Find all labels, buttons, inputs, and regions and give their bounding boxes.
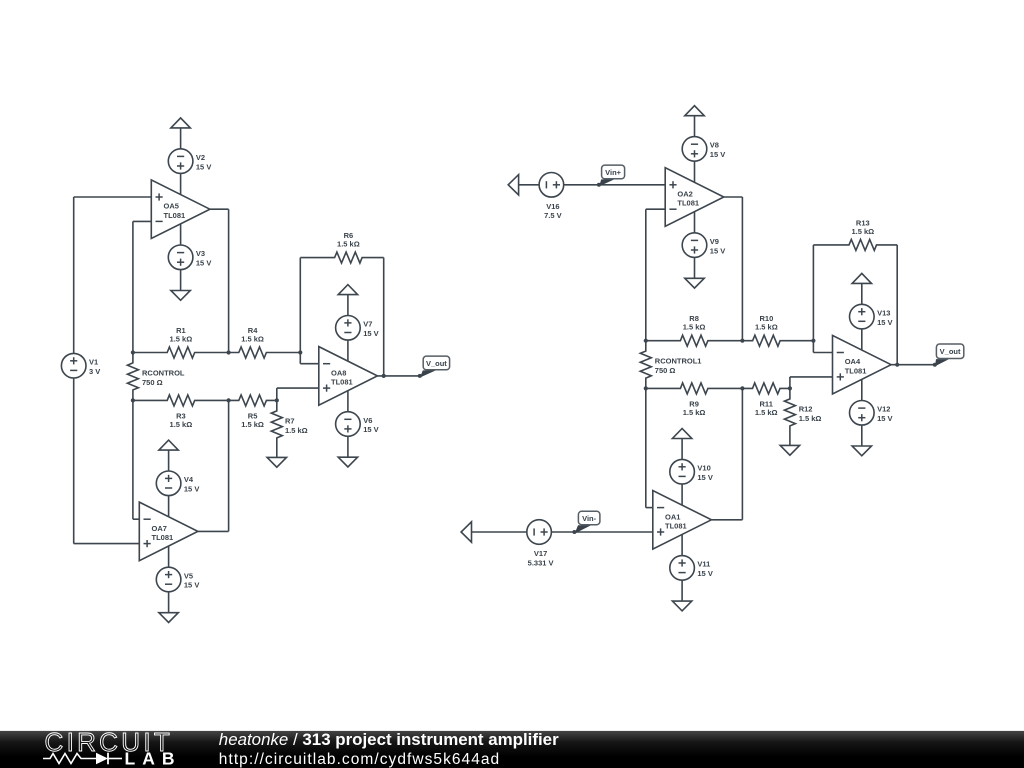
svg-text:1.5 kΩ: 1.5 kΩ xyxy=(241,420,264,429)
resistor RCONTROL1 xyxy=(640,341,701,389)
net flag Vin+ xyxy=(597,165,625,187)
svg-text:7.5 V: 7.5 V xyxy=(544,211,562,220)
svg-text:http://circuitlab.com/cydfws5k: http://circuitlab.com/cydfws5k644ad xyxy=(219,751,500,768)
op-amp OA1 xyxy=(653,491,712,550)
svg-text:OA7: OA7 xyxy=(152,524,167,533)
power V- arrow below V5 xyxy=(159,613,178,623)
voltage source V3 xyxy=(168,245,211,270)
node R9 left junction xyxy=(644,386,648,390)
svg-text:15 V: 15 V xyxy=(363,329,378,338)
svg-text:15 V: 15 V xyxy=(877,414,892,423)
wire OA8 V- pin to V6 xyxy=(347,391,349,413)
svg-text:LAB: LAB xyxy=(125,749,182,768)
wire OA5 output down to R1/R4 node xyxy=(210,209,229,352)
svg-text:V_out: V_out xyxy=(426,359,447,368)
wire xyxy=(681,580,683,601)
svg-text:R12: R12 xyxy=(799,404,813,413)
voltage source V12 xyxy=(850,401,893,426)
power V- arrow below V9 xyxy=(685,278,704,288)
wire OA4 output to V_out xyxy=(891,364,935,366)
voltage source V6 xyxy=(336,412,379,437)
resistor R3 xyxy=(133,395,229,429)
CircuitLab logo resistor-diode squiggle xyxy=(43,753,122,765)
wire OA2 V- pin to V9 xyxy=(694,212,696,233)
wire OA4 V- pin to V12 xyxy=(861,379,863,401)
resistor R9 xyxy=(646,383,743,417)
svg-text:V7: V7 xyxy=(363,320,372,329)
resistor R12 xyxy=(784,388,821,445)
resistor R7 xyxy=(271,400,307,457)
svg-text:V2: V2 xyxy=(196,153,205,162)
op-amp OA8 xyxy=(319,347,378,406)
svg-text:1.5 kΩ: 1.5 kΩ xyxy=(683,323,706,332)
voltage source V2 xyxy=(168,149,211,174)
svg-text:15 V: 15 V xyxy=(196,259,211,268)
net flag V_out (left) xyxy=(418,356,450,378)
node R10 right junction xyxy=(811,339,815,343)
wire OA5 inverting input to left rail xyxy=(133,221,151,352)
svg-text:OA2: OA2 xyxy=(677,190,692,199)
node R3 left junction xyxy=(131,398,135,402)
svg-text:V5: V5 xyxy=(184,571,193,580)
power V- arrow below V11 xyxy=(672,601,691,611)
resistor R11 xyxy=(742,383,790,417)
svg-text:TL081: TL081 xyxy=(152,533,174,542)
svg-text:OA5: OA5 xyxy=(164,202,179,211)
wire R5/R7 node up to OA8 noninverting input xyxy=(277,388,319,400)
svg-text:1.5 kΩ: 1.5 kΩ xyxy=(755,408,778,417)
wire xyxy=(347,295,349,316)
svg-text:OA8: OA8 xyxy=(331,368,346,377)
svg-text:1.5 kΩ: 1.5 kΩ xyxy=(799,414,822,423)
wire xyxy=(681,439,683,460)
wire xyxy=(347,436,349,457)
svg-text:15 V: 15 V xyxy=(196,162,211,171)
op-amp OA2 xyxy=(665,168,724,227)
wire OA5 V- pin to V3 xyxy=(180,224,182,246)
voltage source V17 xyxy=(527,520,554,568)
op-amp OA5 xyxy=(151,180,210,239)
power V+ arrow above V4 xyxy=(159,440,178,450)
wire V7 to OA8 V+ pin xyxy=(347,340,349,361)
wire OA1 inverting input to right rail xyxy=(646,388,653,507)
svg-text:V3: V3 xyxy=(196,249,205,258)
wire V1+ to OA5 noninverting input xyxy=(74,197,152,354)
svg-text:1.5 kΩ: 1.5 kΩ xyxy=(755,323,778,332)
node R8 left junction xyxy=(644,339,648,343)
wire V2 to OA5 V+ pin xyxy=(180,173,182,194)
svg-text:V13: V13 xyxy=(877,308,890,317)
svg-text:15 V: 15 V xyxy=(363,425,378,434)
power V+ arrow above V10 xyxy=(672,429,691,439)
svg-text:V16: V16 xyxy=(546,202,559,211)
net flag V_out (right) xyxy=(933,344,964,367)
input port arrow for V16 xyxy=(508,175,518,195)
voltage source V8 xyxy=(682,137,725,162)
svg-text:750 Ω: 750 Ω xyxy=(655,366,676,375)
voltage source V5 xyxy=(156,567,199,592)
CircuitLab logo LAB xyxy=(125,749,182,768)
voltage source V10 xyxy=(670,459,713,484)
footer title text xyxy=(219,730,559,749)
wire V10 to OA1 V+ pin xyxy=(681,484,683,505)
wire V8 to OA2 V+ pin xyxy=(694,161,696,182)
svg-text:1.5 kΩ: 1.5 kΩ xyxy=(170,420,193,429)
node R11/R12 junction xyxy=(788,386,792,390)
resistor R13 xyxy=(813,218,897,250)
voltage source V16 xyxy=(539,173,564,221)
power V- arrow below V3 xyxy=(171,291,190,301)
svg-text:V6: V6 xyxy=(363,416,372,425)
svg-text:RCONTROL: RCONTROL xyxy=(142,368,185,377)
power V- arrow below V6 xyxy=(338,457,357,467)
voltage source V7 xyxy=(336,316,379,341)
resistor R8 xyxy=(646,314,743,346)
resistor R6 xyxy=(300,231,383,263)
wire OA1 output up to R9/R11 node xyxy=(711,388,742,519)
resistor R5 xyxy=(229,395,277,429)
node R9/R11 junction xyxy=(740,386,744,390)
resistor RCONTROL xyxy=(127,353,185,401)
wire xyxy=(180,269,182,290)
svg-text:V17: V17 xyxy=(534,549,547,558)
wire OA2 inverting input to right rail xyxy=(646,209,665,341)
wire OA7 output up to R3/R5 node xyxy=(198,400,229,531)
wire V17 to OA1 noninverting input xyxy=(551,531,653,533)
resistor R4 xyxy=(229,326,301,358)
power V+ arrow above V8 xyxy=(685,106,704,116)
wire xyxy=(861,425,863,446)
svg-text:OA1: OA1 xyxy=(665,512,680,521)
node R5/R7 junction xyxy=(275,398,279,402)
wire xyxy=(519,184,540,186)
svg-text:15 V: 15 V xyxy=(877,318,892,327)
svg-text:TL081: TL081 xyxy=(665,521,687,530)
svg-text:V_out: V_out xyxy=(940,347,961,356)
node R3/R5 junction xyxy=(227,398,231,402)
svg-text:3 V: 3 V xyxy=(89,367,100,376)
wire OA7 V- pin to V5 xyxy=(168,546,170,568)
svg-text:15 V: 15 V xyxy=(184,581,199,590)
node R1/R4 junction xyxy=(227,350,231,354)
svg-text:RCONTROL1: RCONTROL1 xyxy=(655,356,702,365)
wire xyxy=(168,592,170,613)
resistor R1 xyxy=(133,326,229,358)
wire V16 to OA2 noninverting input xyxy=(563,184,665,186)
ground below R12 xyxy=(780,445,799,455)
svg-text:1.5 kΩ: 1.5 kΩ xyxy=(851,227,874,236)
svg-text:15 V: 15 V xyxy=(697,569,712,578)
wire xyxy=(694,116,696,137)
wire xyxy=(472,531,528,533)
node OA4 output junction xyxy=(895,363,899,367)
ground below R7 xyxy=(267,457,286,467)
wire xyxy=(694,257,696,278)
svg-text:V10: V10 xyxy=(697,464,710,473)
power V+ arrow above V7 xyxy=(338,285,357,295)
wire R11/R12 node up to OA4 noninverting input xyxy=(790,377,833,389)
net flag Vin- xyxy=(572,511,600,534)
svg-text:TL081: TL081 xyxy=(331,378,353,387)
wire R13 right down to OA4 output node xyxy=(896,245,898,365)
wire OA8 output to V_out xyxy=(377,375,420,377)
svg-text:1.5 kΩ: 1.5 kΩ xyxy=(337,240,360,249)
voltage source V9 xyxy=(682,233,725,258)
svg-text:750 Ω: 750 Ω xyxy=(142,378,163,387)
wire V4 to OA7 V+ pin xyxy=(168,495,170,517)
svg-text:1.5 kΩ: 1.5 kΩ xyxy=(285,426,308,435)
svg-text:15 V: 15 V xyxy=(697,473,712,482)
svg-text:V9: V9 xyxy=(710,237,719,246)
svg-text:V8: V8 xyxy=(710,141,719,150)
wire OA7 inverting input to left rail xyxy=(133,400,139,519)
wire V13 to OA4 V+ pin xyxy=(861,329,863,351)
svg-text:15 V: 15 V xyxy=(184,485,199,494)
power V+ arrow above V2 xyxy=(171,118,190,128)
svg-text:V12: V12 xyxy=(877,405,890,414)
svg-text:V4: V4 xyxy=(184,475,194,484)
wire OA2 output down to R8/R10 node xyxy=(724,197,743,341)
node R4 right junction xyxy=(298,350,302,354)
svg-text:TL081: TL081 xyxy=(677,199,699,208)
footer url text xyxy=(219,751,500,768)
svg-text:Vin+: Vin+ xyxy=(605,168,622,177)
svg-text:1.5 kΩ: 1.5 kΩ xyxy=(683,408,706,417)
node OA8 output junction xyxy=(382,374,386,378)
wire xyxy=(168,450,170,471)
svg-text:15 V: 15 V xyxy=(710,150,725,159)
input port arrow for V17 xyxy=(461,522,471,542)
wire R4 node up to R6 and down to OA8 inverting input xyxy=(300,258,319,364)
voltage source V1 xyxy=(61,353,100,378)
svg-text:R7: R7 xyxy=(285,416,295,425)
voltage source V11 xyxy=(670,556,713,581)
op-amp OA7 xyxy=(139,502,198,561)
svg-text:TL081: TL081 xyxy=(845,366,867,375)
node R8/R10 junction xyxy=(740,339,744,343)
svg-text:V11: V11 xyxy=(697,560,710,569)
svg-text:V1: V1 xyxy=(89,358,98,367)
svg-text:1.5 kΩ: 1.5 kΩ xyxy=(241,335,264,344)
CircuitLab logo wordmark CIRCUIT xyxy=(45,727,174,757)
power V- arrow below V12 xyxy=(852,446,871,456)
svg-text:Vin-: Vin- xyxy=(582,514,597,523)
svg-text:TL081: TL081 xyxy=(164,211,186,220)
voltage source V13 xyxy=(850,304,893,329)
svg-text:15 V: 15 V xyxy=(710,246,725,255)
wire R6 right down to OA8 output node xyxy=(383,258,385,376)
footer banner xyxy=(0,731,1024,768)
svg-text:heatonke / 313 project instrum: heatonke / 313 project instrument amplif… xyxy=(219,730,559,749)
op-amp OA4 xyxy=(833,335,892,394)
svg-text:OA4: OA4 xyxy=(845,357,861,366)
wire xyxy=(180,128,182,149)
power V+ arrow above V13 xyxy=(852,273,871,283)
wire R10 node up to R13 and down to OA4 inverting input xyxy=(813,245,832,353)
wire OA1 V- pin to V11 xyxy=(681,534,683,556)
wire V1- to OA7 noninverting input xyxy=(74,378,140,544)
wire xyxy=(861,283,863,304)
svg-text:5.331 V: 5.331 V xyxy=(528,558,554,567)
resistor R10 xyxy=(742,314,813,346)
node R1 left junction xyxy=(131,350,135,354)
svg-text:1.5 kΩ: 1.5 kΩ xyxy=(170,335,193,344)
voltage source V4 xyxy=(156,471,199,496)
